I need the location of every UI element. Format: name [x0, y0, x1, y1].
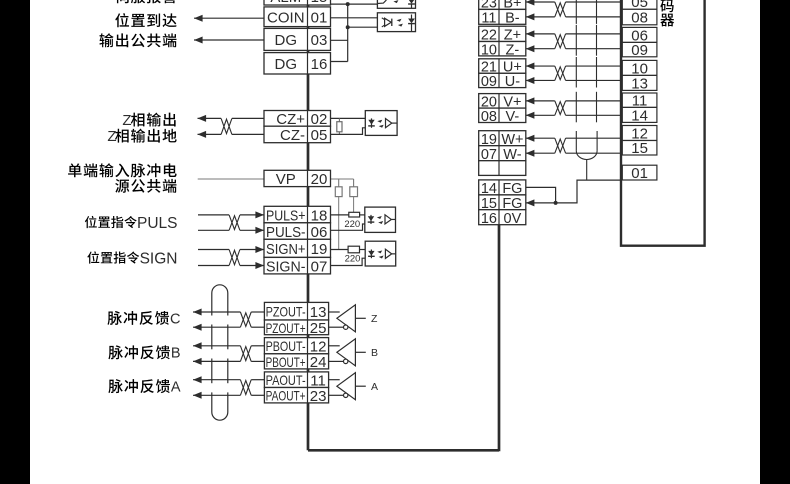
svg-text:U-: U- [505, 74, 520, 90]
net label output common [99, 33, 176, 47]
svg-text:B: B [371, 347, 378, 359]
svg-text:PBOUT+: PBOUT+ [266, 354, 306, 370]
shield tick marks V pair [576, 92, 596, 123]
svg-text:PZOUT+: PZOUT+ [266, 320, 306, 336]
svg-text:PAOUT+: PAOUT+ [266, 388, 306, 404]
connector CN1 row CZ+ pin 02 [264, 111, 331, 129]
connector CN1 row PBOUT+ pin 24 [264, 354, 328, 371]
svg-text:VP: VP [276, 171, 296, 188]
wire VP pin20 to label (pulse supply common) [198, 178, 264, 180]
wire driver A2 non-inverting to pin row [329, 345, 340, 347]
wire U+ to encoder pin 10 [526, 63, 621, 70]
wire COIN output to label arrow [194, 15, 264, 22]
svg-text:A: A [171, 380, 181, 396]
wire W+ to encoder pin 12 [526, 135, 621, 142]
svg-text:07: 07 [311, 258, 328, 275]
net label position cmd PULS [85, 215, 178, 232]
net label A [371, 381, 378, 393]
net label servo alarm [115, 0, 177, 3]
shield tick marks B pair [576, 0, 596, 24]
connector CN2 row B- pin 11 [479, 9, 526, 26]
svg-text:220: 220 [344, 219, 360, 230]
svg-text:PULS-: PULS- [266, 224, 306, 241]
connector CN1 row DG pin 16 [264, 53, 331, 74]
connector CN1 row PULS+ pin 18 [264, 206, 331, 224]
net label pulse feedback C [108, 311, 181, 327]
svg-text:13: 13 [631, 75, 648, 92]
wire DG output common to label arrow [194, 37, 264, 44]
twisted-pair crossing encoder V pair [555, 101, 566, 115]
wire B+ to encoder pin 05 [526, 0, 621, 6]
connector CN2 row 0V pin 16 [479, 210, 526, 227]
svg-text:PBOUT-: PBOUT- [266, 338, 306, 354]
connector CN1 row COIN pin 01 [264, 7, 331, 27]
svg-text:14: 14 [631, 107, 648, 124]
connector CN1 row PZOUT- pin 13 [264, 302, 328, 321]
svg-text:15: 15 [631, 140, 648, 157]
connector CN1 row PZOUT+ pin 25 [264, 320, 328, 337]
svg-text:Z: Z [107, 128, 116, 145]
twisted-pair crossing CZ pair [221, 118, 232, 134]
wire U- to encoder pin 13 [526, 77, 621, 84]
wire CZ- to left arrow [198, 131, 265, 138]
svg-text:18: 18 [311, 207, 328, 224]
connector CN2 row W+ pin 19 [479, 131, 526, 148]
svg-text:16: 16 [311, 56, 328, 73]
net label B [371, 347, 378, 359]
svg-text:220: 220 [345, 254, 361, 265]
svg-text:A: A [371, 381, 378, 393]
svg-text:09: 09 [631, 42, 648, 59]
shield tick marks Z pair [576, 25, 596, 56]
wire Z-phase feedback upper to left arrow [193, 309, 264, 316]
svg-text:23: 23 [310, 388, 327, 405]
svg-text:V-: V- [506, 109, 520, 125]
wire common bus to opto U2 cathode [348, 26, 378, 28]
wire R2 to PULS+ node [353, 197, 355, 213]
net label position reached [115, 13, 176, 27]
wire PULS+ pin18 to resistor R3 [331, 214, 349, 216]
connector CN2 row U- pin 09 [479, 73, 526, 90]
wire PULS- from left with arrow into pin06 [198, 227, 264, 234]
wire COIN pin01 to opto U2 anode [331, 17, 378, 19]
connector CN1 row VP pin 20 [264, 170, 331, 188]
svg-text:B: B [171, 346, 181, 362]
wire R1 to SIGN+ node [338, 197, 340, 250]
svg-text:CZ-: CZ- [280, 127, 305, 144]
resistor R4 220 series SIGN [348, 246, 359, 253]
encoder pin cell 05 [622, 0, 657, 11]
net label supply common [115, 179, 176, 193]
connector CN2 row FG pin 14 [479, 180, 526, 197]
svg-text:25: 25 [310, 320, 327, 337]
cable shield capsule around feedback pairs [212, 285, 228, 420]
wire ALM pin15 to opto U1 [331, 3, 378, 5]
vertical label encoder (bian-ma-qi, cut at top) [660, 0, 674, 26]
connector CN2 row W- pin 07 [479, 146, 526, 163]
wire driver A1 inverting (bubble) to pin row [329, 326, 344, 328]
svg-text:01: 01 [631, 165, 648, 182]
wire CN1 connector spine bus [308, 0, 499, 451]
svg-text:DG: DG [275, 32, 298, 49]
net label position cmd SIGN [87, 250, 177, 267]
wire V- to encoder pin 14 [526, 112, 621, 119]
svg-text:08: 08 [481, 109, 497, 125]
encoder pin cell 09 [622, 42, 657, 59]
svg-text:PAOUT-: PAOUT- [266, 372, 306, 388]
junction node DG bus [346, 25, 350, 29]
connector CN1 row SIGN+ pin 19 [264, 239, 331, 258]
wire CZ- pin05 to opto U3 LED cathode [331, 128, 372, 135]
wire PULS+ from left with arrow into pin18 [198, 211, 264, 218]
svg-text:03: 03 [311, 32, 328, 49]
connector CN1 row ALM pin 15 (cut at top) [264, 0, 331, 6]
svg-text:PULS+: PULS+ [266, 207, 306, 224]
svg-text:19: 19 [311, 241, 328, 258]
svg-text:13: 13 [310, 304, 327, 321]
svg-text:COIN: COIN [267, 10, 305, 27]
wire SIGN+ pin19 to resistor R4 [331, 249, 349, 251]
twisted-pair crossing encoder U pair [555, 66, 566, 80]
wire SIGN- pin07 to opto U5 LED cathode [331, 258, 372, 265]
connector CN2 row V- pin 08 [479, 108, 526, 125]
net label pulse feedback B [108, 345, 180, 361]
wire driver A2 inverting (bubble) to pin row [329, 360, 344, 362]
encoder pin cell 14 [622, 107, 657, 124]
wire B-phase feedback upper to left arrow [193, 342, 264, 349]
wire driver A1 non-inverting to pin row [329, 311, 340, 313]
svg-text:01: 01 [311, 10, 328, 27]
svg-text:20: 20 [311, 171, 328, 188]
svg-text:DG: DG [275, 56, 298, 73]
svg-text:C: C [170, 311, 180, 327]
connector CN2 row U+ pin 21 [479, 59, 526, 76]
svg-text:06: 06 [311, 224, 328, 241]
encoder connector CN3 outline (cut at top) [621, 0, 705, 246]
svg-text:SIGN-: SIGN- [266, 258, 306, 275]
svg-text:SIGN: SIGN [140, 250, 178, 267]
connector CN1 row PAOUT- pin 11 [264, 372, 328, 390]
connector CN2 row Z+ pin 22 [479, 26, 526, 43]
net label pulse feedback A [108, 379, 180, 395]
junction node ALM bus [346, 2, 350, 6]
encoder pin cell 15 [622, 140, 657, 157]
svg-text:24: 24 [310, 354, 327, 371]
connector CN1 row CZ- pin 05 [264, 126, 331, 144]
twisted-pair crossing PULS pair [229, 215, 240, 230]
encoder pin cell 08 [622, 9, 657, 26]
svg-text:B-: B- [505, 11, 520, 27]
svg-text:16: 16 [481, 211, 497, 227]
value label 220 (R3) [344, 219, 360, 230]
svg-text:09: 09 [481, 74, 497, 90]
wire A-phase feedback lower to left arrow [193, 392, 264, 399]
twisted-pair crossing A feedback pair [240, 380, 251, 396]
wire SIGN+ from left with arrow into pin19 [198, 246, 264, 253]
connector CN1 row PULS- pin 06 [264, 223, 331, 241]
connector CN1 row PAOUT+ pin 23 [264, 388, 328, 406]
net label Z-phase output [122, 112, 175, 129]
wire vertical common bus [347, 4, 349, 61]
shield tick marks U pair [576, 57, 596, 88]
svg-text:05: 05 [311, 127, 328, 144]
resistor R3 220 series PULS [349, 212, 360, 217]
wire B- to encoder pin 08 [526, 13, 621, 20]
wire VP to pull-up resistors R1 R2 [331, 179, 354, 187]
net label single-ended pulse supply [68, 163, 177, 177]
line driver A2 (B phase) [337, 339, 366, 366]
wire A-phase feedback upper to left arrow [193, 376, 264, 383]
wire 15FG to encoder shell with arrow [526, 180, 621, 206]
twisted-pair crossing encoder B pair [555, 2, 566, 17]
opto-coupler U4 PULS input [365, 207, 396, 232]
svg-text:08: 08 [631, 10, 648, 27]
wire SIGN- from left with arrow into pin07 [198, 262, 264, 269]
twisted-pair crossing encoder W pair [555, 138, 566, 153]
wire PULS- pin06 to opto U4 LED cathode [331, 224, 372, 230]
wire V+ to encoder pin 11 [526, 97, 621, 104]
svg-text:10: 10 [481, 42, 497, 58]
net label Z [371, 313, 378, 325]
encoder pin cell 13 [622, 75, 657, 92]
shield funnel on W pair to encoder shell [576, 131, 597, 180]
wire Z- to encoder pin 09 [526, 45, 621, 52]
wire DG pin16 to bus [331, 61, 348, 63]
connector CN2 row Z- pin 10 [479, 42, 526, 59]
svg-text:PULS: PULS [137, 215, 178, 232]
wire DG pin03 to bus [331, 39, 348, 41]
wire CZ+ to left arrow with twisted pair [198, 115, 265, 122]
twisted-pair crossing encoder Z pair [555, 34, 566, 49]
encoder pin cell 06 [622, 27, 657, 44]
connector CN1 row DG pin 03 [264, 28, 331, 50]
connector CN1 row SIGN- pin 07 [264, 257, 331, 275]
twisted-pair crossing SIGN pair [229, 250, 240, 266]
wire driver A3 inverting (bubble) to pin row [329, 394, 344, 396]
encoder pin cell 01 [622, 165, 657, 182]
connector CN2 empty row [479, 161, 526, 176]
line driver A3 (A phase) [337, 373, 366, 400]
encoder pin cell 11 [622, 93, 657, 110]
wire Z+ to encoder pin 06 [526, 30, 621, 37]
opto-coupler U5 SIGN input [365, 241, 396, 266]
opto-coupler U3 Z-phase output [365, 111, 397, 136]
svg-text:15: 15 [311, 0, 328, 6]
resistor R2 (VP to PULS+) [350, 187, 358, 197]
connector CN2 row V+ pin 20 [479, 94, 526, 111]
svg-text:PZOUT-: PZOUT- [266, 304, 306, 320]
svg-text:SIGN+: SIGN+ [266, 241, 306, 258]
wire Z-phase feedback lower to left arrow [193, 324, 264, 331]
svg-text:Z-: Z- [506, 42, 520, 58]
svg-text:Z: Z [371, 313, 378, 325]
encoder pin cell 12 [622, 126, 657, 143]
wire CZ+ pin02 to opto U3 LED anode [331, 117, 372, 119]
line driver A1 (Z phase) [337, 305, 366, 332]
wire R4 to opto U5 LED anode [360, 249, 372, 251]
wire R3 to opto U4 LED anode [360, 214, 372, 216]
encoder pin cell 10 [622, 60, 657, 77]
twisted-pair crossing B feedback pair [240, 346, 251, 362]
wire 14FG to shield node [526, 187, 556, 203]
connector CN1 row PBOUT- pin 12 [264, 338, 328, 356]
opto-coupler U1 servo alarm output (cut at top) [377, 0, 415, 8]
svg-text:11: 11 [481, 11, 496, 27]
wire driver A3 non-inverting to pin row [329, 379, 340, 381]
svg-text:Z: Z [122, 112, 131, 129]
wire B-phase feedback lower to left arrow [193, 358, 264, 365]
twisted-pair crossing Z feedback pair [240, 312, 251, 327]
svg-text:12: 12 [310, 339, 327, 356]
connector CN2 row FG pin 15 [479, 195, 526, 212]
connector CN2 row B+ pin 23 [479, 0, 526, 12]
svg-text:ALM: ALM [270, 0, 301, 6]
wire W- to encoder pin 15 [526, 150, 621, 157]
junction node FG [554, 201, 558, 205]
value label 220 (R4) [345, 254, 361, 265]
net label Z-phase output gnd [107, 128, 176, 145]
resistor R1 (VP to SIGN+) [335, 187, 342, 197]
opto-coupler U2 COIN/DG output [377, 13, 415, 32]
resistor R5 (CZ shunt) [337, 118, 342, 134]
svg-text:0V: 0V [504, 211, 522, 227]
